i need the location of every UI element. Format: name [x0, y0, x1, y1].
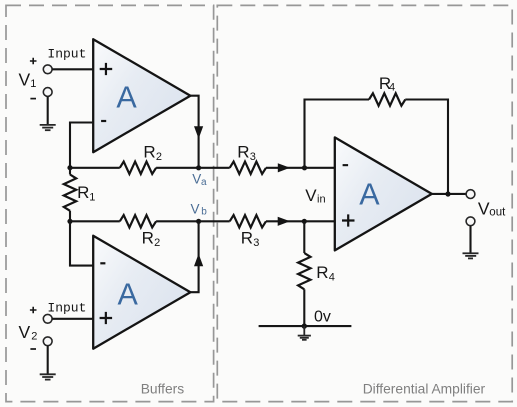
- wire: R2 (lower) to node Vb: [156, 220, 199, 222]
- U2 - input symbol: [100, 262, 105, 264]
- node at U3 output (feedback tap): [445, 191, 450, 196]
- svg-text:R: R: [142, 229, 154, 248]
- wire: U2 feedback from inverting input up to node J2: [70, 221, 93, 265]
- wire: R2 (upper) to node Va: [156, 167, 199, 169]
- arrow: current direction into node Vb (up): [194, 254, 203, 267]
- ground symbol (0v rail): [298, 326, 311, 340]
- terminal V2 +: [43, 314, 52, 323]
- label R2 (lower): [142, 229, 161, 250]
- label: V2: [19, 322, 38, 343]
- svg-text:2: 2: [31, 331, 37, 343]
- resistor R4 (feedback): [369, 93, 405, 105]
- svg-text:3: 3: [253, 237, 259, 249]
- svg-text:R: R: [143, 143, 155, 162]
- op-amp U3 (differential amplifier) triangle: [335, 137, 432, 250]
- svg-text:A: A: [118, 278, 139, 312]
- dashed section box: Buffers: [6, 5, 214, 401]
- op-amp U2 (buffer 2) triangle: [93, 236, 190, 349]
- svg-text:Buffers: Buffers: [141, 381, 185, 396]
- terminal Vout: [466, 190, 475, 199]
- ground symbol (V1): [40, 125, 56, 130]
- label: - polarity of V2: [30, 348, 36, 350]
- label Va: [192, 172, 207, 188]
- terminal V2 -: [43, 337, 52, 346]
- svg-text:4: 4: [389, 82, 395, 94]
- svg-text:Differential Amplifier: Differential Amplifier: [363, 381, 486, 396]
- U2 + input symbol: [100, 312, 113, 324]
- arrow: current direction into U3 + input (right): [278, 217, 290, 226]
- svg-text:4: 4: [329, 271, 335, 283]
- svg-text:V: V: [478, 198, 490, 218]
- svg-text:Input: Input: [47, 300, 86, 315]
- svg-text:R: R: [77, 183, 89, 202]
- wire: U1 feedback from inverting input to node J1: [70, 123, 93, 168]
- node Va: [196, 165, 201, 170]
- label R3 (lower): [241, 229, 260, 250]
- svg-text:A: A: [359, 178, 380, 212]
- svg-text:R: R: [241, 229, 253, 248]
- wire: R1 leads: [69, 168, 71, 222]
- wire: node to U3 inverting input: [305, 167, 335, 169]
- label Vb: [191, 201, 208, 217]
- arrow: current direction into node Va (down): [194, 126, 203, 139]
- resistor R4 (grounding, vertical): [298, 253, 310, 289]
- node at U3 noninverting input: [302, 219, 307, 224]
- label R1: [77, 183, 95, 204]
- svg-text:2: 2: [156, 151, 162, 163]
- wire: U2 output right and up to node Vb: [190, 221, 198, 292]
- svg-text:V: V: [192, 172, 201, 187]
- U3 - input symbol: [343, 164, 349, 166]
- resistor R3 (lower): [230, 215, 266, 227]
- terminal V1 +: [43, 65, 52, 74]
- wire: node to U3 noninverting input: [304, 220, 335, 222]
- wire: R4 (grounding) down to 0v rail: [303, 289, 305, 326]
- svg-text:1: 1: [89, 192, 95, 204]
- 0v rail: [259, 325, 352, 327]
- label Vin: [305, 186, 325, 206]
- label R4 (feedback): [379, 74, 395, 94]
- wire: feedback loop up from inverting node through R4 to output node: [305, 100, 449, 195]
- wire: node Vb to resistor R3 (lower): [199, 220, 230, 222]
- wire: V2 - terminal down to ground: [47, 346, 49, 374]
- ground symbol (V2): [40, 374, 56, 379]
- dashed section box: Differential Amplifier: [217, 5, 512, 401]
- label R4 (grounding): [316, 263, 335, 284]
- ground symbol (Vout return): [463, 253, 479, 258]
- svg-text:Input: Input: [47, 47, 86, 62]
- svg-text:R: R: [316, 263, 328, 282]
- node Vb: [196, 219, 201, 224]
- wire: U3 output to Vout terminal: [432, 193, 466, 195]
- label: V1: [19, 69, 37, 90]
- svg-text:V: V: [305, 186, 317, 205]
- U3 + input symbol: [342, 214, 355, 226]
- svg-text:A: A: [116, 81, 137, 115]
- wire: V2 + terminal to U2 noninverting input: [52, 318, 93, 320]
- wire: V1 + terminal to U1 noninverting input: [52, 68, 93, 70]
- svg-text:in: in: [317, 193, 326, 205]
- label: - polarity of V1: [30, 98, 36, 100]
- svg-text:V: V: [19, 69, 31, 89]
- U1 - input symbol: [101, 120, 106, 122]
- wire: node J2 to resistor R2 (lower): [70, 220, 120, 222]
- node on 0v rail: [302, 323, 307, 328]
- resistor R2 (lower): [120, 215, 156, 227]
- resistor R3 (upper): [230, 162, 266, 174]
- label R3 (upper): [237, 143, 256, 164]
- svg-text:0v: 0v: [314, 308, 331, 325]
- node J1 (junction of R1, R2, U1 feedback): [67, 165, 72, 170]
- label R2 (upper): [143, 143, 162, 164]
- wire: V1 - terminal down to ground: [47, 97, 49, 125]
- node J2 (junction of R1 bottom, R2 lower, U2 feedback): [67, 219, 72, 224]
- svg-text:out: out: [489, 207, 506, 219]
- svg-text:2: 2: [154, 237, 160, 249]
- label: + polarity of V1: [30, 58, 37, 65]
- svg-text:a: a: [201, 177, 207, 188]
- label Vout: [478, 198, 506, 218]
- svg-text:R: R: [237, 143, 249, 162]
- svg-text:V: V: [19, 322, 31, 342]
- wire: vertical from noninverting node down to R4 (grounding): [303, 221, 305, 253]
- svg-text:3: 3: [250, 151, 256, 163]
- arrow: current direction into U3 - input (right): [278, 163, 290, 172]
- label: + polarity of V2: [30, 307, 37, 314]
- terminal V1 -: [43, 88, 52, 97]
- resistor R1 (vertical): [64, 175, 76, 211]
- U1 + input symbol: [100, 63, 113, 75]
- svg-text:V: V: [191, 201, 200, 216]
- svg-text:1: 1: [30, 78, 36, 90]
- node at U3 inverting input: [302, 165, 307, 170]
- resistor R2 (upper): [120, 162, 156, 174]
- wire: node Va to resistor R3 (upper): [199, 167, 230, 169]
- wire: R3 (upper) to inverting node of U3: [266, 167, 305, 169]
- wire: Vout return terminal down to ground: [469, 226, 471, 253]
- wire: node J1 to resistor R2 (upper): [70, 167, 120, 169]
- wire: R3 (lower) to noninverting node of U3: [266, 220, 304, 222]
- wire: U1 output right and down to node Va: [190, 96, 198, 168]
- terminal Vout return: [466, 217, 475, 226]
- op-amp U1 (buffer 1) triangle: [93, 39, 190, 152]
- svg-text:b: b: [201, 206, 207, 217]
